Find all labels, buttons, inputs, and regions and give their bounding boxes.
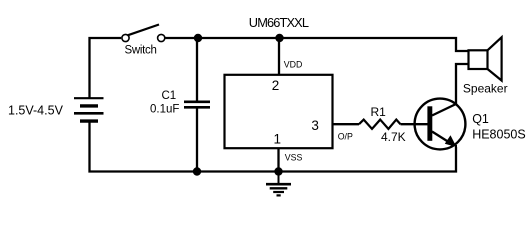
svg-text:Speaker: Speaker [463, 82, 508, 96]
svg-text:O/P: O/P [338, 131, 353, 141]
svg-text:2: 2 [272, 78, 280, 93]
speaker LS1 cone [488, 37, 502, 80]
wire left vertical top (battery + to top rail) [90, 38, 122, 98]
resistor R1 zigzag [359, 120, 401, 129]
transistor Q1 collector line [432, 104, 456, 116]
wire top rail (switch to speaker) [166, 38, 469, 51]
svg-text:VSS: VSS [285, 153, 303, 163]
wire left vertical bottom (battery - to bottom rail) [90, 122, 457, 172]
svg-text:VDD: VDD [284, 60, 303, 70]
transistor Q1 emitter line with arrow [432, 132, 451, 144]
wire IC pin 2 to top rail [278, 38, 280, 75]
wire capacitor top branch [196, 38, 198, 101]
svg-text:HE8050S: HE8050S [472, 128, 526, 142]
wire resistor to transistor base [401, 123, 430, 125]
svg-text:0.1uF: 0.1uF [150, 104, 179, 116]
battery 1.5V-4.5V [74, 98, 104, 121]
svg-text:R1: R1 [371, 105, 387, 119]
wire capacitor bottom branch [196, 108, 198, 172]
transistor Q1 circle [415, 99, 466, 150]
node junction dot (C1 bottom) [193, 167, 201, 175]
svg-text:4.7K: 4.7K [381, 130, 406, 144]
node junction dot (VSS / ground) [274, 167, 282, 175]
svg-text:C1: C1 [162, 90, 177, 102]
transistor Q1 base bar [427, 106, 432, 141]
svg-text:Switch: Switch [125, 45, 157, 57]
svg-text:UM66TXXL: UM66TXXL [249, 15, 309, 30]
wire emitter to bottom rail [455, 145, 457, 172]
ground symbol [266, 172, 291, 196]
wire IC pin 3 to resistor [333, 123, 360, 125]
svg-text:1.5V-4.5V: 1.5V-4.5V [8, 104, 64, 118]
node junction dot (C1 top) [194, 34, 202, 42]
wire speaker lower terminal to collector [456, 64, 469, 104]
svg-text:1: 1 [274, 132, 282, 147]
capacitor C1 [184, 102, 210, 108]
svg-text:Q1: Q1 [472, 112, 489, 126]
speaker LS1 body [469, 50, 488, 69]
wire IC pin 1 to bottom rail [277, 148, 279, 172]
node junction dot (IC VDD top) [275, 34, 283, 42]
switch [122, 25, 165, 42]
svg-text:3: 3 [311, 118, 319, 133]
op IC U1 UM66TXXL box [225, 75, 333, 148]
